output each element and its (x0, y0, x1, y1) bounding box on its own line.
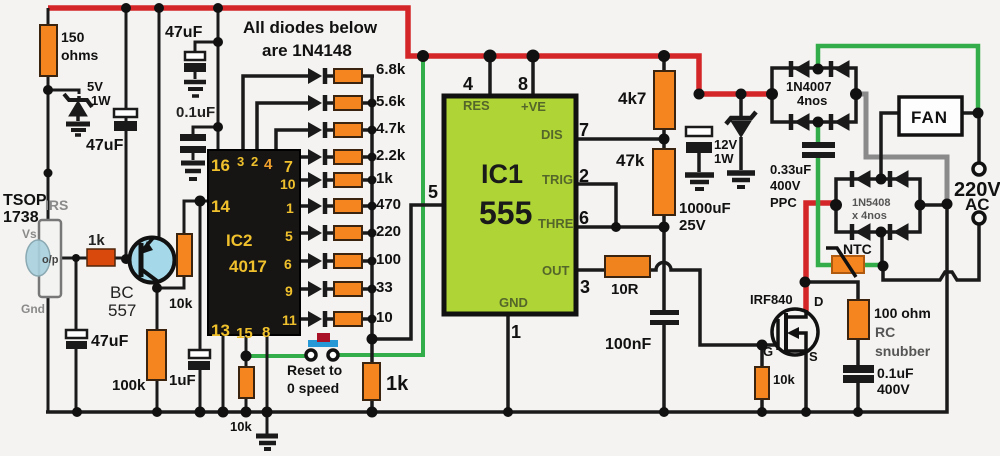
svg-text:3: 3 (580, 277, 590, 297)
svg-text:150: 150 (61, 29, 85, 45)
svg-text:8: 8 (518, 74, 528, 94)
svg-text:TRIG: TRIG (542, 172, 573, 187)
svg-text:5: 5 (285, 228, 293, 244)
MOSFET IRF840 (772, 309, 818, 355)
wire: NTC node down and right to 220V neutral terminal (hop over vertical) (883, 224, 979, 280)
svg-text:0.1uF: 0.1uF (176, 104, 215, 121)
svg-text:6.8k: 6.8k (376, 61, 406, 78)
terminal: 220V AC live (973, 163, 985, 175)
junction dots: IC2 bottom / reset (241, 351, 252, 362)
svg-text:x 4nos: x 4nos (852, 210, 887, 222)
svg-text:PPC: PPC (770, 195, 797, 210)
svg-text:11: 11 (282, 312, 297, 328)
wire: branch to 5V zener (48, 90, 79, 94)
resistor 1k (base) (87, 249, 115, 266)
wire: IC1 pin7 (DIS) to 4k7/47k node (574, 137, 664, 141)
svg-text:10R: 10R (611, 281, 639, 298)
svg-text:AC: AC (965, 195, 990, 214)
svg-text:47uF: 47uF (86, 137, 124, 154)
wire: IC2 pin4 riser to diode row3 (276, 130, 308, 152)
capacitor 47uF (rail filter, x=126) polarized (114, 109, 137, 131)
svg-text:TSOP: TSOP (3, 192, 47, 209)
ground: below 47uF top cap (184, 82, 206, 96)
svg-text:1: 1 (511, 322, 521, 342)
svg-text:OUT: OUT (542, 263, 570, 278)
ground: below IC2 pin8 (256, 436, 278, 449)
wire: 4k7 bottom to 47k top (662, 128, 666, 150)
capacitor 0.1uF 400V (snubber) (843, 365, 874, 383)
resistor 5.6k (334, 96, 362, 110)
wire: bus node through 1k to bottom rail (370, 339, 374, 364)
junction dots: MOSFET area (757, 277, 811, 351)
svg-text:snubber: snubber (875, 343, 931, 359)
junction dots: bottom rail (72, 407, 863, 418)
junction dots: top +V rail (121, 3, 747, 100)
wire: green from +reset node down and to reset switch (246, 56, 423, 356)
junction dots: right section bridges and terminals (766, 64, 984, 272)
svg-text:S: S (809, 349, 818, 364)
svg-text:D: D (814, 294, 823, 309)
svg-text:10k: 10k (773, 372, 795, 387)
svg-text:4017: 4017 (229, 257, 267, 276)
resistor 4.7k (334, 123, 362, 137)
svg-text:7: 7 (284, 159, 293, 176)
wire: 150 ohm branch vertical (rail to TSOP Vs) (47, 8, 50, 221)
svg-text:1W: 1W (91, 93, 111, 108)
wire: IC2 pin3 riser to diode row1 (243, 76, 308, 152)
svg-text:IRS: IRS (45, 197, 68, 213)
capacitor 0.1uF (x=193) (180, 134, 206, 160)
svg-text:4: 4 (264, 156, 273, 173)
svg-text:FAN: FAN (911, 108, 948, 127)
thermistor NTC (826, 248, 864, 277)
junction dots: diode ladder bus (367, 99, 378, 345)
resistor 2.2k (334, 150, 362, 164)
wire: IC1 pin1 (GND) to rail (506, 313, 510, 412)
resistor 47k (653, 149, 675, 215)
svg-text:All diodes below: All diodes below (243, 18, 378, 37)
wire: diode ladder common bus (370, 76, 374, 339)
diode D9 1N4148 (row 33) (308, 281, 325, 297)
transistor BC557 (130, 237, 175, 283)
svg-text:Vs: Vs (22, 227, 37, 241)
svg-text:10k: 10k (169, 295, 193, 311)
svg-text:400V: 400V (770, 178, 801, 193)
wire: bridge2 right vertex to gray/down wire (918, 203, 949, 207)
svg-text:12V: 12V (714, 137, 737, 152)
wire: IC2 pin13 to rail (222, 334, 225, 412)
svg-text:100: 100 (376, 251, 401, 268)
wire: MOSFET source to rail (804, 352, 808, 412)
svg-text:0 speed: 0 speed (287, 380, 339, 396)
diode D6 1N4148 (row 470) (308, 198, 325, 214)
svg-text:1k: 1k (386, 373, 409, 395)
wire: IC1 pin3 (OUT) to 10R (574, 268, 605, 272)
ground: below 0.1uF cap (181, 163, 205, 179)
svg-text:10: 10 (280, 176, 296, 192)
resistor 100 (334, 254, 362, 268)
svg-text:0.1uF: 0.1uF (877, 365, 914, 381)
resistor 10R (605, 256, 650, 277)
svg-text:IC1: IC1 (481, 159, 523, 189)
resistor 10k (BC557 collector to pin14) (177, 234, 192, 276)
wire: IC2 pin15 to 10k to rail (245, 334, 248, 367)
zener 5V 1W (64, 94, 92, 121)
wire: bottom ground rail (46, 204, 947, 412)
svg-text:4.7k: 4.7k (376, 120, 406, 137)
diode D8 1N4148 (row 100) (308, 253, 325, 269)
svg-text:1k: 1k (88, 232, 105, 249)
svg-text:1W: 1W (714, 151, 734, 166)
resistor 100k (147, 330, 166, 380)
svg-text:1N4007: 1N4007 (786, 79, 832, 94)
svg-text:5V: 5V (87, 79, 103, 94)
svg-text:o/p: o/p (42, 254, 59, 266)
diode D1 1N4148 (row 6.8k) (308, 68, 325, 84)
svg-text:1N5408: 1N5408 (852, 197, 891, 209)
capacitor 0.33uF 400V PPC (802, 142, 835, 158)
svg-text:2.2k: 2.2k (376, 147, 406, 164)
svg-text:9: 9 (285, 283, 293, 299)
ground: below 5V zener (66, 124, 90, 135)
svg-text:555: 555 (479, 195, 532, 231)
wire: 47uF(left) branch from rail down to BC557 base node (125, 8, 128, 259)
svg-text:Gnd: Gnd (21, 302, 45, 316)
svg-text:2: 2 (579, 166, 589, 186)
svg-text:IRF840: IRF840 (750, 292, 793, 307)
ground: below 12V zener (727, 173, 755, 187)
junction dots: left section (43, 37, 223, 293)
TSOP 1738 sensor body (26, 220, 61, 297)
svg-text:10k: 10k (230, 419, 252, 434)
svg-text:47uF: 47uF (91, 333, 129, 350)
svg-text:RC: RC (875, 324, 895, 340)
wire: collector node to 10k resistor bottom (157, 276, 184, 288)
resistor 100 ohm (snubber) (848, 300, 869, 339)
wire: IC2 pin2 riser to diode row2 (257, 103, 308, 152)
wire: green from bridge1 bottom vertex through 0.33uF to NTC (818, 120, 883, 265)
svg-text:5.6k: 5.6k (376, 93, 406, 110)
wire: IC1 pin8 to rail (531, 56, 535, 98)
svg-text:4nos: 4nos (797, 93, 827, 108)
svg-text:7: 7 (579, 120, 589, 140)
svg-text:NTC: NTC (843, 241, 872, 257)
svg-text:6: 6 (579, 208, 589, 228)
resistor 33 (334, 282, 362, 296)
svg-text:are 1N4148: are 1N4148 (262, 41, 352, 60)
svg-text:100 ohm: 100 ohm (874, 305, 931, 321)
svg-text:33: 33 (376, 279, 393, 296)
wire: red MOSFET drain to bridge2 left vertex (806, 203, 834, 312)
wire: TSOP gnd down to bottom rail (47, 297, 50, 412)
svg-text:13: 13 (211, 321, 230, 340)
svg-text:220: 220 (376, 223, 401, 240)
junction dots: IC1 area (611, 134, 670, 233)
IC1 555 body (444, 96, 576, 314)
diode D4 1N4148 (row 2.2k) (308, 149, 325, 165)
wire: IC1 pin4 to rail (488, 56, 492, 98)
wire: 4k7 top to rail (662, 56, 666, 72)
wire: branch to 0.1uF cap (193, 127, 218, 134)
svg-text:GND: GND (499, 295, 528, 310)
capacitor 100nF (650, 310, 679, 325)
svg-text:ohms: ohms (61, 47, 99, 63)
svg-text:Reset to: Reset to (287, 362, 342, 378)
capacitor 1uF (x=200) polarized (188, 350, 210, 370)
ground: below 1000uF (685, 175, 714, 189)
wire: IC1 pin2 (TRIG) joining pin6 (574, 184, 616, 227)
svg-text:100nF: 100nF (605, 336, 651, 353)
diode D7 1N4148 (row 220) (308, 225, 325, 241)
svg-text:400V: 400V (877, 381, 910, 397)
svg-text:6: 6 (284, 256, 292, 272)
wire: gate 10k pulldown to rail (760, 345, 764, 367)
svg-text:RES: RES (463, 98, 490, 113)
capacitor 47uF (top, x=195) polarized (184, 52, 206, 79)
wire: BC557 collector down through 100k to rail (156, 280, 159, 412)
svg-text:15: 15 (236, 325, 253, 342)
wire: bus to IC1 pin5 (372, 205, 445, 339)
wire: drain node to RC snubber branch (805, 282, 858, 301)
wire: 47k bottom through 100nF to rail (662, 214, 666, 310)
capacitor 47uF (TSOP output, x=76) polarized (66, 330, 87, 349)
wire: bridge2 bottom vertex to NTC node (880, 230, 884, 266)
wire: IC2 pin14 to 10k top and 1uF branch (184, 201, 209, 235)
resistor 220 (334, 226, 362, 240)
svg-text:1: 1 (286, 200, 294, 216)
wire: BC557 emitter vertical to rail (158, 8, 161, 240)
wire: 1k to BC557 base (114, 257, 134, 260)
svg-text:BC: BC (110, 283, 134, 302)
svg-text:8: 8 (262, 324, 270, 341)
diode D5 1N4148 (row 1k) (308, 172, 325, 188)
diode D2 1N4148 (row 5.6k) (308, 95, 325, 111)
svg-text:16: 16 (211, 156, 230, 175)
wire: green from bridge1 top vertex to FAN right terminal (818, 46, 978, 113)
wire: IC1 pin6 (THRE) to 47k bottom (574, 225, 664, 229)
svg-text:100k: 100k (112, 377, 146, 394)
svg-text:4: 4 (463, 74, 473, 94)
pushbutton: Reset to 0 speed (306, 333, 338, 360)
capacitor 1000uF 25V polarized (686, 127, 712, 172)
diode D10 1N4148 (row 10) (308, 311, 325, 327)
IC2 4017 body (208, 150, 300, 335)
diode D3 1N4148 (row 4.7k) (308, 122, 325, 138)
wire: IC2 pin8 to rail and ground (266, 334, 269, 434)
resistor 1k (ladder) (334, 173, 362, 187)
resistor 6.8k (334, 69, 362, 83)
resistor 1k (bus to ground) (363, 363, 380, 400)
wire: TSOP o/p to 1k and branch down through 47uF to rail (60, 257, 88, 260)
svg-text:2: 2 (251, 154, 258, 169)
resistor 10k (gate pulldown) (755, 367, 769, 399)
zener 12V 1W (726, 94, 756, 170)
wire: 10R output to MOSFET gate (with hop over 100nF line) (649, 263, 776, 346)
svg-text:DIS: DIS (541, 127, 563, 142)
wire: FAN right terminal to 220V live terminal (962, 113, 979, 163)
svg-text:1k: 1k (376, 170, 393, 187)
wire: gray from bridge1 right vertex to bridge2 right side (854, 94, 947, 201)
svg-text:10: 10 (376, 309, 393, 326)
svg-text:+VE: +VE (521, 99, 546, 114)
wire: snubber 100ohm to 0.1uF cap to rail (856, 338, 860, 366)
svg-text:4k7: 4k7 (618, 89, 646, 108)
svg-text:5: 5 (428, 182, 438, 202)
svg-text:47k: 47k (616, 151, 645, 170)
svg-text:25V: 25V (679, 217, 706, 234)
svg-text:G: G (763, 344, 773, 359)
svg-text:1738: 1738 (3, 209, 39, 226)
svg-text:557: 557 (108, 301, 136, 320)
svg-text:14: 14 (211, 197, 230, 216)
svg-text:IC2: IC2 (226, 231, 252, 250)
wire: branch to 47uF top cap (195, 42, 218, 52)
wire: IC2 pin16 vertical from rail (217, 4, 220, 152)
resistor 150 ohms (40, 25, 57, 76)
bridge rectifier 1N4007 4nos (772, 61, 856, 130)
svg-text:470: 470 (376, 196, 401, 213)
wire: FAN left terminal to bridge2 top vertex (881, 113, 900, 180)
terminal: 220V AC neutral (973, 212, 985, 224)
resistor 470 (334, 199, 362, 213)
wire: diode-to-resistor and resistor-to-bus stubs (324, 76, 374, 319)
resistor 4k7 (654, 71, 675, 129)
wire: IC2 right-edge stubs to diode rows 4-10 (299, 157, 308, 319)
wire: red +V top rail (48, 8, 770, 94)
svg-text:47uF: 47uF (165, 24, 203, 41)
svg-text:3: 3 (237, 154, 244, 169)
resistor 10k (pin15 pulldown) (239, 367, 254, 398)
FAN box (899, 97, 962, 135)
svg-text:1uF: 1uF (169, 372, 196, 389)
bridge rectifier 1N5408 x4nos (836, 171, 920, 240)
svg-text:1000uF: 1000uF (679, 200, 731, 217)
svg-text:0.33uF: 0.33uF (770, 162, 811, 177)
resistor 10 (334, 312, 362, 326)
svg-text:THRE: THRE (538, 216, 574, 231)
